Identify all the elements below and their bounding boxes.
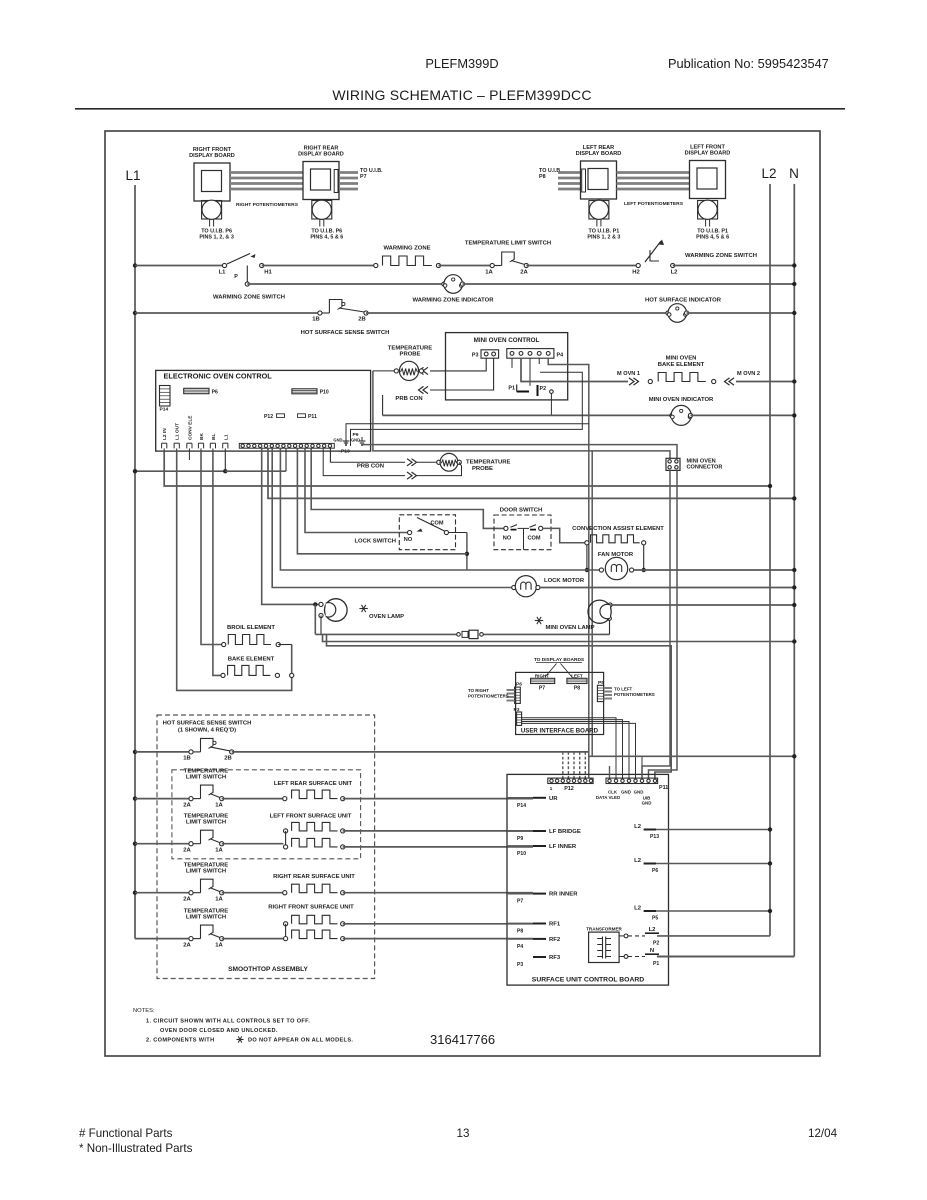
wire EOC GND loop upper — [346, 424, 589, 446]
mini oven connector J1 — [666, 458, 680, 470]
wire bus to mini oven connector B — [373, 371, 670, 458]
svg-text:WARMING ZONE INDICATOR: WARMING ZONE INDICATOR — [413, 298, 495, 304]
svg-text:P4: P4 — [517, 944, 523, 950]
svg-text:1B: 1B — [183, 756, 191, 762]
svg-text:PRB CON: PRB CON — [395, 396, 422, 402]
svg-text:UR: UR — [549, 796, 558, 802]
svg-text:DISPLAY BOARD: DISPLAY BOARD — [576, 151, 622, 157]
svg-text:WARMING ZONE SWITCH: WARMING ZONE SWITCH — [685, 253, 757, 259]
svg-text:HOT SURFACE SENSE SWITCH: HOT SURFACE SENSE SWITCH — [163, 721, 252, 727]
ribbon cable left boards — [617, 171, 690, 174]
svg-text:P8: P8 — [517, 929, 523, 935]
svg-text:DO NOT APPEAR ON ALL MODE: DO NOT APPEAR ON ALL MODELS. — [248, 1038, 353, 1044]
svg-text:LIMIT SWITCH: LIMIT SWITCH — [186, 869, 226, 875]
svg-text:1A: 1A — [215, 897, 223, 903]
svg-text:L2 IN: L2 IN — [162, 428, 168, 440]
svg-text:2A: 2A — [183, 803, 191, 809]
SUCB pin P8 RF1 — [533, 923, 546, 925]
electronic oven control board U-EOC — [156, 370, 371, 451]
wire N vertical bus — [793, 184, 795, 957]
svg-text:1B: 1B — [312, 317, 320, 323]
wire EOC L1 OUT loop — [177, 451, 292, 690]
svg-text:Publication No: 5995423547: Publication No: 5995423547 — [668, 56, 829, 71]
connector P11 marker of EOC — [298, 414, 306, 418]
svg-text:WARMING ZONE: WARMING ZONE — [383, 246, 430, 252]
lock motor M-LOCK — [512, 585, 516, 589]
svg-text:POTENTIOMETERS: POTENTIOMETERS — [468, 694, 509, 699]
svg-text:P6: P6 — [212, 389, 218, 395]
svg-text:P7: P7 — [539, 686, 545, 692]
svg-text:P9: P9 — [517, 836, 523, 842]
wire P4 pin4 stub — [538, 358, 540, 364]
svg-text:RF1: RF1 — [549, 922, 561, 928]
wire right rear unit to P7 — [343, 892, 533, 894]
wire indicator to N — [463, 283, 795, 285]
wire oven lamp feed — [262, 448, 319, 604]
lock switch S-LOCK — [399, 515, 455, 550]
wire warming element to 1A — [439, 265, 491, 267]
svg-text:P5: P5 — [652, 916, 658, 922]
ribbon cable to U.I.B. P7 — [339, 171, 358, 174]
svg-text:BAKE ELEMENT: BAKE ELEMENT — [228, 657, 275, 663]
svg-text:13: 13 — [457, 1127, 470, 1140]
svg-text:RR INNER: RR INNER — [549, 892, 578, 898]
connector P11 of SUCB — [606, 778, 658, 783]
svg-text:GND: GND — [642, 801, 652, 806]
wire right front outer to P8 — [343, 923, 533, 925]
svg-text:2A: 2A — [520, 270, 528, 276]
svg-text:P7: P7 — [517, 899, 523, 905]
wire 2B to hot surface indicator — [366, 312, 668, 314]
inline lamp connector — [457, 633, 461, 637]
svg-text:(1 SHOWN, 4 REQ’D): (1 SHOWN, 4 REQ’D) — [178, 728, 236, 734]
svg-text:LOCK MOTOR: LOCK MOTOR — [544, 578, 585, 584]
svg-text:DOOR SWITCH: DOOR SWITCH — [500, 508, 543, 514]
wire probe return loop — [416, 462, 462, 475]
svg-text:HOT SURFACE SENSE SWITCH: HOT SURFACE SENSE SWITCH — [301, 330, 390, 336]
svg-text:L1: L1 — [125, 168, 140, 183]
svg-text:WIRING SCHEMATIC – PLEFM399DCC: WIRING SCHEMATIC – PLEFM399DCC — [332, 87, 591, 103]
svg-text:LIMIT SWITCH: LIMIT SWITCH — [186, 775, 226, 781]
svg-text:HOT SURFACE INDICATOR: HOT SURFACE INDICATOR — [645, 298, 722, 304]
svg-text:TEMPERATURE LIMIT SWITCH: TEMPERATURE LIMIT SWITCH — [465, 241, 551, 247]
wire left front bridge to P9 — [343, 830, 533, 832]
EOC bottom pin header — [239, 443, 334, 448]
svg-text:PINS 4, 5 & 6: PINS 4, 5 & 6 — [310, 235, 343, 241]
svg-text:P: P — [234, 274, 238, 280]
svg-text:MINI OVEN LAMP: MINI OVEN LAMP — [546, 625, 595, 631]
svg-text:L2: L2 — [671, 270, 679, 276]
connector P6 of EOC — [184, 388, 209, 393]
svg-text:NO: NO — [503, 536, 512, 542]
svg-text:DATA VLED: DATA VLED — [596, 795, 620, 800]
svg-text:2A: 2A — [183, 943, 191, 949]
svg-text:2A: 2A — [183, 848, 191, 854]
svg-text:P14: P14 — [517, 803, 526, 809]
wire EOC BL to bake element — [213, 451, 221, 675]
node bake return — [290, 673, 294, 677]
wire connector to mini oven lamp — [484, 633, 610, 635]
svg-text:CONV ELE: CONV ELE — [187, 415, 193, 440]
svg-text:RIGHT FRONT SURFACE UNIT: RIGHT FRONT SURFACE UNIT — [268, 905, 354, 911]
svg-text:LEFT POTENTIOMETERS: LEFT POTENTIOMETERS — [624, 201, 684, 207]
svg-text:ELECTRONIC OVEN CONTROL: ELECTRONIC OVEN CONTROL — [164, 372, 273, 381]
svg-text:LOCK SWITCH: LOCK SWITCH — [354, 539, 396, 545]
ribbon to right potentiometers — [507, 689, 515, 691]
svg-text:OVEN DOOR CLOSED AND UNLOC: OVEN DOOR CLOSED AND UNLOCKED. — [160, 1028, 278, 1034]
svg-text:P11: P11 — [308, 414, 317, 420]
svg-text:OVEN LAMP: OVEN LAMP — [369, 614, 404, 620]
svg-text:PINS 4, 5 & 6: PINS 4, 5 & 6 — [696, 235, 729, 241]
svg-text:L2: L2 — [634, 906, 642, 912]
SUCB pin P7 RR INNER — [533, 893, 546, 895]
svg-text:1. CIRCUIT SHOWN WITH ALL: 1. CIRCUIT SHOWN WITH ALL CONTROLS SET T… — [146, 1019, 310, 1025]
wires UIB P3 to P11 — [522, 718, 616, 778]
SUCB pin P14 UR — [533, 797, 546, 799]
wire row1 to warming zone element — [262, 265, 374, 267]
svg-text:P3: P3 — [517, 962, 523, 968]
svg-text:N: N — [789, 166, 799, 181]
svg-text:MINI OVEN CONTROL: MINI OVEN CONTROL — [474, 337, 540, 344]
wire L2 vertical bus — [769, 184, 771, 936]
wires sense bus to P12 pins — [562, 752, 564, 778]
potentiometer: right rear — [312, 201, 332, 220]
svg-text:RIGHT REAR SURFACE UNIT: RIGHT REAR SURFACE UNIT — [273, 874, 355, 880]
svg-text:SMOOTHTOP ASSEMBLY: SMOOTHTOP ASSEMBLY — [228, 966, 308, 973]
svg-text:RF3: RF3 — [549, 955, 561, 961]
mini oven lamp DS2 — [608, 603, 612, 607]
svg-text:RF2: RF2 — [549, 937, 561, 943]
label oven lamp — [359, 608, 367, 610]
svg-text:* Non-Illustrated Parts: * Non-Illustrated Parts — [79, 1142, 193, 1155]
svg-text:1A: 1A — [215, 943, 223, 949]
P11 feed stubs — [609, 766, 611, 778]
temperature limit switch 3 — [133, 891, 137, 895]
svg-text:2B: 2B — [358, 317, 366, 323]
svg-text:H2: H2 — [632, 270, 640, 276]
svg-text:PLEFM399D: PLEFM399D — [425, 56, 498, 71]
title underline — [75, 108, 845, 110]
wire to door switch NO — [311, 448, 504, 528]
svg-text:NOTES:: NOTES: — [133, 1008, 155, 1014]
wire bus to mini oven connector A — [362, 445, 677, 459]
svg-text:H1: H1 — [264, 270, 272, 276]
EOC pin BK — [198, 442, 203, 444]
connector P12 of SUCB — [548, 778, 593, 783]
svg-text:L2: L2 — [649, 927, 657, 933]
wire fan motor to N — [634, 569, 795, 571]
svg-text:POTENTIOMETERS: POTENTIOMETERS — [614, 692, 655, 697]
svg-text:P12: P12 — [564, 786, 574, 792]
EOC pin L2 IN — [162, 442, 167, 444]
wire element taps to fan row — [586, 545, 588, 570]
svg-text:TEMPERATURE: TEMPERATURE — [466, 460, 510, 466]
smoothtop assembly dashed enclosure — [157, 715, 375, 979]
wire bus to N lower — [323, 634, 795, 641]
svg-text:2. COMPONENTS WITH: 2. COMPONENTS WITH — [146, 1038, 214, 1044]
relay contacts P1 P2 — [516, 385, 518, 392]
svg-text:BROIL ELEMENT: BROIL ELEMENT — [227, 625, 275, 631]
wire switch pole drop — [246, 266, 248, 282]
oven lamp DS1 — [319, 602, 323, 606]
wire fan motor row — [280, 448, 599, 570]
svg-text:PROBE: PROBE — [400, 352, 421, 358]
svg-text:COM: COM — [430, 521, 443, 527]
wire pole to indicator — [247, 283, 444, 285]
EOC ground P9 — [345, 437, 347, 441]
svg-text:P6: P6 — [652, 868, 658, 874]
connector P14 of EOC — [160, 386, 171, 407]
wire P3 pin1 to probe chevron — [430, 358, 486, 371]
svg-text:DISPLAY BOARD: DISPLAY BOARD — [189, 153, 235, 159]
svg-text:DISPLAY BOARD: DISPLAY BOARD — [298, 152, 344, 158]
wire right front inner to P4 — [343, 938, 533, 940]
chevron connector PRB CON lower — [423, 386, 428, 393]
svg-text:GND: GND — [621, 790, 631, 795]
svg-text:P7: P7 — [360, 174, 367, 180]
svg-text:L2: L2 — [634, 824, 642, 830]
outer border — [105, 131, 820, 1056]
display board: left rear — [581, 161, 617, 199]
svg-text:MINI OVEN INDICATOR: MINI OVEN INDICATOR — [649, 397, 714, 403]
wire mini oven indicator to N — [691, 414, 795, 416]
svg-text:BL: BL — [211, 434, 217, 440]
svg-text:P13: P13 — [650, 834, 659, 840]
svg-text:PRB CON: PRB CON — [357, 464, 384, 470]
svg-text:P1: P1 — [653, 961, 659, 967]
svg-text:2A: 2A — [183, 897, 191, 903]
ribbon cable right boards — [230, 171, 303, 174]
svg-text:PINS 1, 2 & 3: PINS 1, 2 & 3 — [587, 235, 620, 241]
wire door COM to convection element — [543, 528, 585, 542]
svg-text:1: 1 — [550, 786, 553, 792]
svg-text:P3: P3 — [472, 353, 479, 359]
hot surface sense switch (top) — [318, 311, 322, 315]
wire bus N mid — [268, 448, 794, 498]
svg-text:TO RIGHT: TO RIGHT — [468, 688, 489, 693]
svg-text:P1: P1 — [508, 386, 515, 392]
svg-text:P4: P4 — [557, 353, 564, 359]
svg-text:P12: P12 — [264, 414, 273, 420]
svg-text:P2: P2 — [540, 386, 547, 392]
EOC pin CONV ELE — [187, 442, 192, 444]
svg-text:GND: GND — [351, 438, 360, 443]
svg-text:PINS 1, 2, & 3: PINS 1, 2, & 3 — [199, 235, 233, 241]
svg-text:1A: 1A — [215, 848, 223, 854]
wire indicator row left — [383, 414, 672, 416]
svg-text:BK: BK — [199, 433, 205, 440]
svg-text:L1: L1 — [219, 270, 227, 276]
warming zone switch (left) — [222, 263, 226, 267]
wire bus to lock COM junction — [297, 448, 467, 554]
wire bus to P11 — [327, 634, 672, 778]
wire P4 pin3 to P1 — [529, 358, 531, 386]
display board: right front — [194, 163, 230, 201]
wire L1 vertical bus — [134, 185, 136, 939]
wire to lock switch NO — [305, 448, 408, 532]
svg-text:BAKE ELEMENT: BAKE ELEMENT — [658, 362, 705, 368]
svg-text:M OVN 2: M OVN 2 — [737, 371, 760, 377]
svg-text:1A: 1A — [485, 270, 493, 276]
warming zone switch (right) — [636, 263, 640, 267]
svg-text:P13: P13 — [341, 449, 350, 455]
svg-text:L2: L2 — [634, 858, 642, 864]
EOC pin L1 OUT — [174, 442, 179, 444]
svg-text:MINI OVEN: MINI OVEN — [666, 356, 697, 362]
connector P3 of mini oven control — [481, 350, 499, 358]
svg-text:WARMING ZONE SWITCH: WARMING ZONE SWITCH — [213, 295, 285, 301]
wire broil element to return — [278, 644, 292, 646]
wire row2 from L1 — [133, 311, 137, 315]
svg-text:CLK: CLK — [608, 790, 618, 795]
svg-text:1A: 1A — [215, 803, 223, 809]
SUCB pin P4 RF2 — [533, 938, 546, 940]
svg-text:L1 OUT: L1 OUT — [175, 423, 181, 440]
connector P10 of EOC — [292, 389, 317, 394]
wire mini oven bus down to P12 — [588, 445, 590, 778]
svg-text:GND: GND — [634, 790, 644, 795]
svg-text:PROBE: PROBE — [472, 466, 493, 472]
wire hot surface indicator to N — [687, 312, 795, 314]
svg-text:LEFT REAR SURFACE UNIT: LEFT REAR SURFACE UNIT — [274, 781, 353, 787]
wire lamp return row — [320, 616, 322, 635]
svg-text:P8: P8 — [574, 686, 580, 692]
svg-text:P11: P11 — [659, 785, 668, 791]
ribbon cable from U.I.B. P8 — [558, 171, 581, 174]
svg-text:COM: COM — [527, 536, 540, 542]
resistor: left front surface unit (inner) — [222, 843, 284, 845]
wire bus L2 mid — [164, 451, 770, 486]
svg-text:P10: P10 — [320, 390, 329, 396]
svg-text:CONNECTOR: CONNECTOR — [687, 465, 723, 471]
wire row1 from L1 — [133, 263, 137, 267]
ribbon to left potentiometers — [604, 687, 612, 689]
potentiometer: left rear — [589, 201, 609, 220]
svg-text:TRANSFORMER: TRANSFORMER — [586, 927, 622, 932]
svg-text:RIGHT POTENTIOMETERS: RIGHT POTENTIOMETERS — [236, 202, 299, 208]
wire sense switch to P12 — [232, 751, 589, 753]
svg-text:SURFACE UNIT CONTROL BOARD: SURFACE UNIT CONTROL BOARD — [532, 977, 644, 984]
svg-text:DISPLAY BOARD: DISPLAY BOARD — [685, 151, 731, 157]
svg-text:LIMIT SWITCH: LIMIT SWITCH — [186, 820, 226, 826]
EOC pin BL — [210, 442, 215, 444]
svg-text:M OVN 1: M OVN 1 — [617, 371, 640, 377]
SUCB pin P10 LF INNER — [533, 845, 546, 847]
wire P4 pin1 stub — [511, 358, 513, 368]
wire lock COM out — [449, 532, 467, 534]
wire mini oven connector down A — [642, 470, 670, 778]
temperature limit switch 2 — [133, 842, 137, 846]
wire mini oven lamp to N — [610, 604, 794, 606]
svg-text:P10: P10 — [517, 851, 526, 857]
wire left rear unit to P14 — [343, 798, 533, 800]
wire lock motor to N — [540, 587, 794, 589]
wire EOC L1 pin to L1 bus — [224, 451, 226, 471]
svg-text:CONVECTION ASSIST ELEMENT: CONVECTION ASSIST ELEMENT — [572, 526, 664, 532]
svg-text:12/04: 12/04 — [808, 1127, 838, 1140]
svg-text:316417766: 316417766 — [430, 1032, 495, 1047]
potentiometer: right front — [202, 201, 222, 220]
svg-text:L1: L1 — [223, 434, 229, 440]
svg-text:N: N — [650, 948, 654, 954]
chevron M OVN 2 — [729, 378, 734, 385]
resistor: right front surface unit (inner) — [222, 938, 284, 940]
potentiometer: left front — [698, 201, 718, 220]
wire P4 pin5 to connector bus — [548, 358, 589, 445]
EOC ground P13 — [361, 437, 363, 441]
wire P4 pin2 to bake element row — [521, 358, 628, 382]
EOC pin L1 — [223, 442, 228, 444]
wire EOC BK to broil element — [201, 451, 222, 644]
wire bake element to N — [736, 381, 794, 383]
wire 2A to H2 — [526, 265, 636, 267]
mini oven control board U-MOC — [446, 333, 568, 400]
svg-text:LF INNER: LF INNER — [549, 844, 577, 850]
connector P4 of mini oven control — [507, 349, 554, 359]
SUCB pin P3 RF3 — [533, 956, 546, 958]
svg-text:NO: NO — [404, 537, 413, 543]
wire mini oven bus down to N line — [591, 451, 593, 756]
wire EOC GND loop lower — [351, 372, 583, 446]
svg-text:USER INTERFACE BOARD: USER INTERFACE BOARD — [521, 728, 599, 735]
display board: right rear — [303, 162, 339, 200]
svg-text:LIMIT SWITCH: LIMIT SWITCH — [186, 915, 226, 921]
indicator: warming zone — [442, 282, 446, 286]
wire left front inner to P10 — [343, 846, 533, 848]
svg-text:LF BRIDGE: LF BRIDGE — [549, 829, 581, 835]
svg-text:2B: 2B — [224, 756, 232, 762]
svg-text:GND: GND — [333, 438, 342, 443]
svg-text:L2: L2 — [761, 166, 776, 181]
svg-text:# Functional Parts: # Functional Parts — [79, 1127, 173, 1140]
wire P12 to N — [589, 755, 795, 757]
wire P3 pin2 loop — [430, 358, 494, 390]
chevron connector PRB CON upper — [423, 367, 428, 374]
SUCB pin P9 LF BRIDGE — [533, 830, 546, 832]
user interface board U-UIB — [516, 672, 604, 734]
inner dashed enclosure left units — [172, 770, 361, 859]
wire P2 to indicator row — [550, 394, 552, 416]
svg-text:P2: P2 — [653, 941, 659, 947]
wire lock motor row — [272, 448, 512, 587]
wire L2 contact to N — [673, 265, 795, 267]
temperature limit switch 1 — [133, 796, 137, 800]
svg-text:TO LEFT: TO LEFT — [614, 687, 633, 692]
svg-text:LEFT FRONT SURFACE UNIT: LEFT FRONT SURFACE UNIT — [270, 814, 352, 820]
display board: left front — [690, 161, 726, 199]
svg-text:P8: P8 — [539, 174, 546, 180]
surface unit control board U-SUCB — [507, 774, 669, 985]
wire mini oven connector down B — [649, 470, 678, 778]
svg-text:P14: P14 — [160, 407, 169, 413]
